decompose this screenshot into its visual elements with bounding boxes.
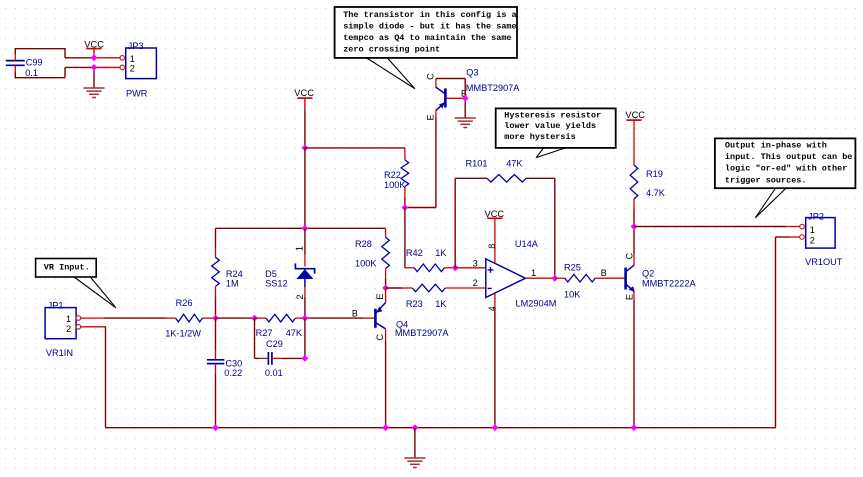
wire VCC down (304, 110, 306, 148)
wire C29 right up to node (304, 318, 306, 358)
resistor R22 100K (404, 148, 406, 160)
svg-text:The transistor in this config: The transistor in this config is a (343, 10, 516, 20)
svg-text:2: 2 (295, 294, 305, 299)
svg-text:1M: 1M (226, 278, 239, 288)
svg-text:2: 2 (473, 278, 478, 288)
svg-text:0.01: 0.01 (265, 368, 283, 378)
junction R22 bottom (401, 204, 408, 211)
connector JP3 (PWR) (126, 48, 157, 79)
svg-text:1K: 1K (435, 299, 447, 309)
wire ground rail (106, 427, 776, 429)
resistor R28 100K (385, 228, 387, 237)
wire Q4 collector to ground rail (385, 341, 387, 428)
svg-text:VR Input.: VR Input. (44, 263, 90, 273)
svg-text:C30: C30 (225, 359, 242, 369)
annotation pointer to R101 (536, 148, 543, 158)
svg-text:R25: R25 (564, 262, 581, 272)
wire JP2 pin2 down to rail (789, 236, 800, 238)
wire R101 right leg down (554, 178, 556, 278)
svg-text:lower value yields: lower value yields (504, 121, 596, 131)
svg-text:C99: C99 (26, 58, 43, 68)
resistor R25 10K (555, 277, 565, 279)
svg-text:47K: 47K (286, 328, 303, 338)
svg-text:B: B (601, 268, 607, 278)
svg-text:1: 1 (531, 268, 536, 278)
junction rail Q2 emitter (631, 424, 638, 431)
svg-text:more hystersis: more hystersis (504, 132, 575, 142)
svg-text:VR1OUT: VR1OUT (805, 257, 843, 267)
resistor R101 47K (455, 177, 487, 179)
connector JP1 (VR1IN) (45, 308, 76, 339)
svg-text:JP1: JP1 (48, 301, 64, 311)
svg-text:Hysteresis resistor: Hysteresis resistor (504, 110, 601, 120)
svg-text:R22: R22 (384, 170, 401, 180)
wire R22 node down to R42 (404, 208, 406, 268)
annotation pointer to output wire (755, 189, 775, 218)
svg-text:JP2: JP2 (808, 212, 824, 222)
svg-text:1: 1 (810, 225, 815, 235)
op-amp U14A LM2904M (486, 259, 526, 298)
svg-text:R19: R19 (646, 169, 663, 179)
wire Q4 base (305, 317, 363, 319)
wire C99 bottom to node (14, 72, 16, 78)
svg-text:MMBT2907A: MMBT2907A (395, 328, 449, 338)
wire C99 top to VCC node (14, 49, 16, 54)
wire R19 node to JP2 pin1 (634, 226, 786, 228)
wire op-amp output (525, 277, 554, 279)
junction R27 right / D5 / Q4 base (301, 315, 308, 322)
svg-text:LM2904M: LM2904M (516, 299, 557, 309)
svg-text:R26: R26 (176, 298, 193, 308)
ground under Q3 (455, 117, 476, 119)
junction R26/R24/C30 node (212, 315, 219, 322)
svg-text:PWR: PWR (126, 89, 148, 99)
svg-text:4.7K: 4.7K (646, 188, 666, 198)
pin 4 stub (494, 293, 496, 307)
svg-text:VCC: VCC (294, 88, 314, 98)
svg-text:input. This output can be: input. This output can be (725, 152, 853, 162)
annotation box: hysteresis note (496, 108, 616, 147)
resistor R19 4.7K (633, 120, 635, 165)
svg-text:Q2: Q2 (642, 269, 654, 279)
svg-text:1: 1 (66, 314, 71, 324)
svg-text:C29: C29 (266, 339, 283, 349)
svg-text:1K: 1K (435, 248, 447, 258)
svg-text:2: 2 (66, 324, 71, 334)
capacitor C30 0.22 (215, 318, 217, 350)
ground symbol bottom (404, 457, 425, 459)
resistor R23 1K (386, 287, 403, 289)
wire ground stem (414, 428, 416, 458)
svg-text:Output in-phase with: Output in-phase with (725, 141, 827, 151)
annotation pointer lines to Q3 (367, 58, 415, 89)
wire node to JP3 pin 1 (94, 57, 120, 59)
svg-text:VCC: VCC (625, 110, 645, 120)
svg-text:1K-1/2W: 1K-1/2W (165, 328, 201, 338)
junction R27 left / C29 (251, 315, 258, 322)
svg-text:100K: 100K (384, 180, 406, 190)
svg-text:R23: R23 (406, 299, 423, 309)
junction output / R101 / R25 (551, 275, 558, 282)
junction VCC node (91, 54, 98, 61)
wire Q3 emitter down (435, 110, 437, 117)
svg-text:100K: 100K (355, 258, 377, 268)
svg-text:B: B (352, 308, 358, 318)
resistor R26 1K-1/2W (166, 317, 176, 319)
pin 8 stub (494, 218, 496, 262)
svg-text:logic "or-ed" with other: logic "or-ed" with other (725, 164, 847, 174)
wire top rail R24 to R28 (216, 227, 386, 229)
junction R28 bottom / R23 / Q4 emitter (382, 285, 389, 292)
svg-text:2: 2 (130, 64, 135, 74)
wire Q2 collector up (633, 227, 635, 255)
svg-text:10K: 10K (564, 289, 581, 299)
junction D5 top node (301, 225, 308, 232)
svg-text:R42: R42 (406, 248, 423, 258)
wire Q3 collector loop (436, 78, 465, 80)
svg-text:2: 2 (810, 235, 815, 245)
svg-text:Q3: Q3 (466, 67, 478, 77)
wire op-amp pin4 to rail (494, 307, 496, 428)
svg-text:JP3: JP3 (128, 41, 144, 51)
junction C29 right (301, 355, 308, 362)
svg-text:0.22: 0.22 (224, 368, 242, 378)
junction VCC / R22 tee (301, 145, 308, 152)
transistor Q4 MMBT2907A (385, 288, 387, 303)
svg-text:R28: R28 (355, 239, 372, 249)
junction rail op-amp pin4 (491, 424, 498, 431)
wire to op-amp pin 3 (455, 267, 486, 269)
svg-text:simple diode - but it has the: simple diode - but it has the same (343, 22, 516, 32)
capacitor C99 (6, 60, 25, 62)
svg-text:R101: R101 (466, 159, 488, 169)
svg-text:E: E (426, 114, 436, 120)
resistor R24 1M (215, 228, 217, 247)
svg-text:MMBT2222A: MMBT2222A (642, 278, 696, 288)
svg-text:1: 1 (130, 54, 135, 64)
wire Q2 emitter to rail (633, 300, 635, 428)
svg-text:C: C (375, 334, 385, 341)
svg-text:3: 3 (473, 258, 478, 268)
svg-text:8: 8 (487, 244, 497, 249)
wire R101 left leg down (454, 178, 456, 267)
wire JP1 pin1 to R26 (81, 317, 104, 319)
wire node2 down to ground (93, 67, 95, 87)
wire Q3 base to ground (464, 98, 466, 118)
junction rail C30 (212, 424, 219, 431)
svg-text:1: 1 (294, 246, 304, 251)
annotation pointer to JP1 wire (75, 278, 116, 308)
capacitor C29 0.01 (254, 318, 256, 358)
junction Q3 base node (462, 95, 469, 102)
wire VCC column to D5 top (304, 148, 306, 228)
resistor R27 47K (255, 317, 267, 319)
svg-text:SS12: SS12 (265, 278, 287, 288)
svg-text:E: E (624, 294, 634, 300)
svg-text:zero crossing point: zero crossing point (343, 45, 440, 55)
svg-text:VR1IN: VR1IN (46, 348, 73, 358)
svg-text:4: 4 (487, 306, 497, 311)
annotation box: transistor config note (335, 7, 517, 58)
transistor Q2 MMBT2222A (624, 268, 627, 290)
svg-text:0.1: 0.1 (25, 68, 38, 78)
wire node to R27 (216, 317, 255, 319)
wire JP1 pin2 down to rail (81, 326, 104, 328)
diode D5 SS12 (schottky) (304, 228, 306, 254)
junction rail Q4 (382, 424, 389, 431)
ground under PWR (84, 87, 105, 89)
svg-text:MMBT2907A: MMBT2907A (466, 83, 520, 93)
annotation box: output note (715, 138, 856, 188)
transistor Q3 MMBT2907A (435, 79, 437, 88)
svg-text:47K: 47K (506, 159, 523, 169)
svg-text:C: C (624, 252, 634, 259)
junction R42 / R101 / op-amp pin3 (452, 264, 459, 271)
svg-text:trigger sources.: trigger sources. (725, 175, 807, 185)
wire node to JP3 pin 2 (94, 66, 120, 68)
junction rail ground stem (411, 424, 418, 431)
svg-text:C: C (426, 73, 436, 80)
svg-text:U14A: U14A (515, 239, 539, 249)
svg-text:E: E (375, 294, 385, 300)
connector JP2 (VR1OUT) (806, 218, 835, 249)
svg-text:R27: R27 (256, 328, 273, 338)
svg-text:tempco as Q4 to maintain the s: tempco as Q4 to maintain the same (343, 33, 511, 43)
resistor R42 1K (405, 267, 414, 269)
wire VCC node to R22 (305, 147, 405, 149)
junction R19 / JP2 / Q2 collector (631, 223, 638, 230)
junction GND node (91, 64, 98, 71)
annotation box: VR Input (36, 259, 97, 278)
